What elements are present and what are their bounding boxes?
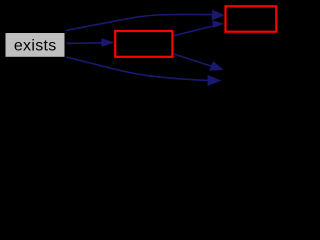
svg-text:exists: exists	[14, 38, 57, 55]
